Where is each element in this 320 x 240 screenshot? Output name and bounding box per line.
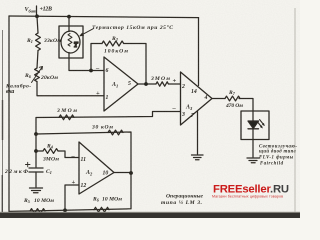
wire A2 output	[114, 172, 131, 174]
resistor R2 100k zigzag	[102, 41, 124, 46]
scan artifact left edge line	[2, 30, 4, 212]
wire R1 to pot	[37, 51, 38, 69]
wire A3 pin14 to rail	[198, 18, 200, 86]
capacitor plus sign	[26, 162, 31, 167]
LED emission arrows	[258, 120, 263, 127]
resistor 30k zigzag	[108, 130, 123, 135]
thermistor RT circle	[61, 31, 80, 53]
resistor R1 33k vertical zigzag	[36, 33, 41, 51]
LED triangle	[248, 121, 259, 129]
LED emission arrowheads	[260, 123, 265, 129]
node junction dot A2 output	[129, 171, 133, 175]
ground LED	[247, 158, 259, 163]
wire top +12V rail	[9, 16, 199, 18]
resistor R5 10M zigzag	[30, 209, 45, 214]
scan artifact right edge line	[294, 8, 296, 212]
LED cathode bar	[248, 128, 259, 130]
potentiometer arrow	[32, 67, 43, 83]
wire thermistor bottom to A1 minus input	[69, 53, 104, 71]
scan artifact band soft top	[0, 212, 300, 213]
node junction dot integrator	[34, 132, 38, 136]
resistor R2 feedback left leg	[91, 44, 102, 71]
wire node down to R4/C1	[35, 134, 37, 167]
ground C1	[30, 188, 43, 193]
wire R2 to output node	[124, 44, 146, 85]
wire 3M to A3 plus	[169, 83, 181, 85]
wire rail to R1	[37, 16, 38, 33]
op-amp A3 triangle	[181, 72, 213, 125]
wire A2 plus input	[65, 185, 79, 210]
thermistor zigzag	[68, 34, 72, 47]
node junction dot feedback/minus input	[89, 69, 93, 73]
wire LED to ground	[252, 140, 254, 158]
wire A3 minus network	[36, 112, 181, 135]
wire thermistor top lead	[68, 17, 70, 32]
node junction dot R4/C1	[34, 149, 38, 153]
op-amp A3 output wire	[212, 98, 225, 100]
wire R7 to LED	[239, 99, 253, 112]
op-amp A2 triangle	[79, 142, 114, 194]
op-amp A1 output wire	[138, 83, 156, 85]
wire R4 to A2 minus	[59, 151, 79, 158]
wire A3 pin7 to ground	[197, 112, 199, 155]
capacitor C1 plates	[29, 168, 43, 172]
wire bottom rail	[9, 173, 131, 211]
resistor 3M (A3 minus) zigzag	[59, 115, 74, 120]
resistor R4 3M zigzag	[36, 149, 59, 154]
wire left vertical rail	[8, 16, 10, 211]
scan artifact bottom band	[0, 213, 300, 218]
wire pot to A1 plus input	[37, 82, 104, 96]
op-amp A1 triangle	[104, 57, 138, 111]
node Vbat tick	[36, 6, 38, 17]
potentiometer R6 20k zigzag	[35, 68, 40, 82]
resistor R6b 10M zigzag	[94, 207, 109, 212]
wire 30k feedback	[36, 132, 131, 173]
resistor 3M to A3 plus zigzag	[156, 82, 168, 86]
wire C1 to ground	[35, 172, 37, 187]
ground A3	[192, 155, 204, 160]
LED box	[241, 111, 269, 140]
thermistor RT box	[59, 26, 83, 58]
LED wire through	[252, 111, 254, 140]
node junction dot A1 output	[144, 82, 148, 86]
thermistor label leader arrow	[80, 29, 93, 36]
node junction dot thermistor top	[67, 15, 71, 19]
node junction dot R1 top	[35, 14, 39, 18]
node junction dot A2 plus bias	[63, 208, 67, 212]
scan artifact darker segments	[1, 100, 3, 212]
resistor R7 470 zigzag	[225, 96, 240, 101]
